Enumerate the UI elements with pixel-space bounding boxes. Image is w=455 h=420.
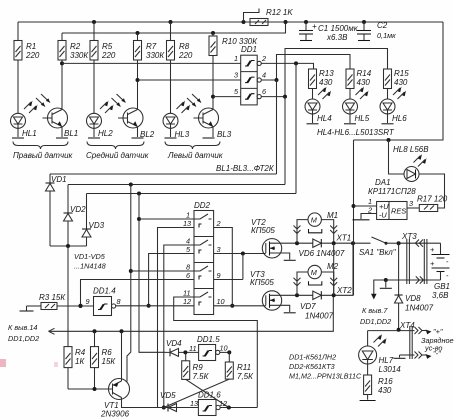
svg-text:DD1.4: DD1.4 bbox=[93, 287, 116, 296]
svg-text:КР1171СП28: КР1171СП28 bbox=[368, 187, 416, 196]
svg-text:220: 220 bbox=[25, 51, 40, 60]
svg-text:R8: R8 bbox=[179, 42, 190, 51]
wire M2 left lead bbox=[297, 272, 308, 295]
label VD1-VD5 type bbox=[74, 252, 107, 271]
ground HL3 bbox=[165, 137, 177, 139]
IC DD1 inverters 1-3 bbox=[234, 45, 267, 105]
wire M2 right lead bbox=[321, 272, 333, 295]
wire rail1 from out4 bbox=[50, 173, 277, 175]
svg-text:C1 1500мк: C1 1500мк bbox=[318, 24, 359, 33]
LED HL4 bbox=[305, 89, 332, 124]
HL8 emit arrows bbox=[414, 154, 427, 167]
resistor R5 220 bbox=[90, 20, 116, 60]
resistor R7 330K bbox=[134, 31, 166, 60]
wire XT4 lower bbox=[400, 349, 442, 359]
label K vyv14 bbox=[8, 323, 39, 343]
svg-text:XT4: XT4 bbox=[399, 321, 415, 330]
svg-text:КП505: КП505 bbox=[251, 226, 275, 235]
wire DD1 output6 to R15 bbox=[261, 49, 387, 99]
LED HL1 bbox=[11, 60, 37, 138]
wire to XT3 upper bbox=[397, 241, 441, 245]
HL1 emit arrows bbox=[24, 101, 38, 114]
ground HL2 bbox=[88, 137, 100, 139]
svg-text:M1,M2...PPN13LB11C: M1,M2...PPN13LB11C bbox=[289, 372, 362, 381]
wire pin8 input bbox=[131, 270, 194, 272]
wire DD1 input pin5 bbox=[213, 96, 241, 98]
svg-text:1: 1 bbox=[234, 54, 238, 63]
wire pin10 output to VT3 gate bbox=[214, 305, 266, 307]
svg-text:220: 220 bbox=[178, 51, 193, 60]
svg-text:15К: 15К bbox=[102, 357, 117, 366]
svg-text:VD4: VD4 bbox=[166, 339, 182, 348]
wire DA1 pin1 bbox=[354, 205, 377, 207]
svg-text:10: 10 bbox=[220, 344, 228, 353]
capacitor C2 0.1uk bbox=[357, 20, 396, 41]
wire rail3 branch to pin1 and VD4 bbox=[137, 194, 165, 353]
svg-text:4: 4 bbox=[262, 71, 266, 80]
svg-text:430: 430 bbox=[378, 386, 392, 395]
transistor VT1 2N3906 bbox=[100, 379, 130, 419]
svg-text:2: 2 bbox=[216, 219, 221, 228]
BL1 receive arrows bbox=[36, 94, 50, 107]
svg-text:R15: R15 bbox=[394, 69, 409, 78]
wire M1 right lead bbox=[321, 220, 333, 244]
connector XT4 bbox=[399, 321, 443, 359]
svg-text:BL3: BL3 bbox=[217, 130, 232, 139]
svg-text:HL7: HL7 bbox=[379, 356, 394, 365]
label charger bbox=[421, 336, 454, 353]
svg-text:R4: R4 bbox=[75, 348, 86, 357]
wire pin9 output bbox=[214, 279, 243, 281]
svg-text:3: 3 bbox=[217, 245, 221, 254]
svg-text:КП505: КП505 bbox=[250, 278, 274, 287]
label right sensor bbox=[13, 151, 74, 160]
BL2 receive arrows bbox=[112, 94, 126, 107]
ground HL1 bbox=[12, 137, 24, 139]
svg-text:VD1-VD5: VD1-VD5 bbox=[74, 252, 106, 261]
svg-text:HL5: HL5 bbox=[355, 114, 370, 123]
wire rail2 from out6 bbox=[68, 183, 285, 187]
ground VT2 bbox=[284, 259, 296, 261]
ground R3 bbox=[20, 306, 34, 311]
HL2 emit arrows bbox=[100, 101, 114, 114]
resistor R4 1K bbox=[64, 246, 86, 389]
svg-text:330К: 330К bbox=[70, 51, 89, 60]
IC DD1.4 bbox=[86, 287, 122, 316]
HL5 emit arrows bbox=[356, 87, 369, 100]
svg-text:M1: M1 bbox=[327, 211, 338, 220]
wire HL8 to R17 bbox=[419, 174, 445, 208]
wire diode cathode bus bbox=[50, 244, 87, 248]
svg-text:"+": "+" bbox=[433, 327, 443, 336]
svg-text:HL3: HL3 bbox=[175, 130, 190, 139]
svg-text:DA1: DA1 bbox=[375, 178, 391, 187]
connector XT3 bbox=[401, 232, 427, 284]
resistor R13 430 bbox=[309, 69, 335, 89]
wire XT1 to XT2 tie bbox=[333, 243, 335, 295]
resistor R17 120 bbox=[407, 195, 448, 212]
resistor R6 15K bbox=[91, 331, 117, 389]
svg-text:VD7: VD7 bbox=[300, 302, 316, 311]
transistor VT2 KP505 bbox=[251, 218, 290, 260]
ground HL6 bbox=[382, 123, 394, 125]
connector XT2 right chevrons bbox=[330, 278, 352, 295]
wire VT1 collector bbox=[122, 398, 199, 408]
svg-text:"-": "-" bbox=[433, 349, 441, 358]
svg-text:HL1: HL1 bbox=[22, 129, 37, 138]
svg-text:R13: R13 bbox=[319, 69, 334, 78]
wire base feed bbox=[68, 387, 113, 391]
svg-text:BL1-BL3...ФТ2К: BL1-BL3...ФТ2К bbox=[216, 164, 275, 173]
svg-text:-U: -U bbox=[379, 211, 387, 220]
svg-text:R1: R1 bbox=[26, 42, 36, 51]
HL3 emit arrows bbox=[177, 101, 191, 114]
LED HL2 bbox=[87, 60, 114, 138]
wire pin6 control bbox=[79, 280, 195, 308]
svg-text:Средний датчик: Средний датчик bbox=[86, 151, 150, 160]
svg-text:3: 3 bbox=[409, 199, 413, 208]
svg-text:К выв.14: К выв.14 bbox=[8, 323, 37, 332]
wire output4 branch down bbox=[276, 80, 278, 174]
scan artifact smudge bbox=[0, 359, 58, 367]
capacitor C1 1500uk bbox=[299, 20, 359, 42]
svg-text:3,6В: 3,6В bbox=[432, 291, 449, 300]
svg-text:M2: M2 bbox=[327, 262, 339, 271]
diode VD4 bbox=[165, 339, 199, 356]
HL7 emit arrows bbox=[374, 334, 387, 347]
wire DD1 output2 to R13 bbox=[261, 61, 313, 69]
wire output6 branch down bbox=[284, 97, 286, 185]
phototransistor BL1 bbox=[43, 60, 79, 138]
svg-text:VD1: VD1 bbox=[51, 175, 67, 184]
wire rail3 from out2 bbox=[87, 192, 297, 196]
svg-text:XT1: XT1 bbox=[336, 234, 352, 243]
ground HL5 bbox=[344, 123, 356, 125]
wire right-edge drop from bus bbox=[354, 22, 444, 140]
IC DD1.6 bbox=[190, 391, 227, 416]
label IC types bbox=[289, 353, 362, 381]
svg-text:220: 220 bbox=[101, 51, 116, 60]
wire pin13 control bbox=[158, 228, 195, 408]
svg-text:М: М bbox=[311, 268, 318, 277]
HL6 emit arrows bbox=[393, 87, 406, 100]
svg-text:К выв.7: К выв.7 bbox=[362, 306, 388, 315]
svg-text:9: 9 bbox=[217, 271, 221, 280]
motor M2 bbox=[308, 262, 339, 285]
resistor R1 220 bbox=[14, 22, 40, 60]
svg-text:М: М bbox=[311, 216, 318, 225]
wire DD1.5 output to R11 bbox=[220, 350, 232, 354]
svg-text:+: + bbox=[312, 22, 317, 31]
ground VT3 bbox=[284, 312, 296, 314]
svg-text:430: 430 bbox=[357, 78, 371, 87]
svg-text:DD1.5: DD1.5 bbox=[197, 335, 220, 344]
resistor R2 330K bbox=[58, 33, 89, 60]
ground BL2 bbox=[132, 137, 144, 139]
svg-text:Левый датчик: Левый датчик bbox=[167, 151, 224, 160]
label HL4-HL6 type bbox=[317, 128, 395, 137]
svg-text:R7: R7 bbox=[146, 42, 157, 51]
svg-text:7.5К: 7.5К bbox=[193, 372, 210, 381]
wire DD1 input pin3 bbox=[138, 79, 241, 81]
svg-text:HL8 L56В: HL8 L56В bbox=[393, 145, 429, 154]
IC DD2 switches bbox=[194, 201, 214, 315]
resistor R16 430 bbox=[364, 375, 394, 400]
svg-text:SA1 "Вкл": SA1 "Вкл" bbox=[359, 248, 397, 257]
resistor R8 220 bbox=[167, 20, 193, 60]
resistor R11 7.5K bbox=[225, 352, 254, 381]
ground DA1 bbox=[353, 219, 370, 221]
wire HL8 feed line bbox=[387, 138, 405, 174]
svg-text:R12 1K: R12 1K bbox=[266, 8, 293, 17]
wire DD1.4 output to pin12 bbox=[116, 305, 194, 307]
connector XT1 right chevrons bbox=[330, 226, 351, 243]
svg-text:2N3906: 2N3906 bbox=[100, 410, 130, 419]
LED HL6 bbox=[380, 89, 407, 124]
wire VT3 drain to M2 node bbox=[275, 293, 313, 297]
wire DD1.6 output bbox=[220, 406, 257, 410]
svg-text:VD3: VD3 bbox=[89, 221, 105, 230]
battery GB1 bbox=[430, 243, 450, 300]
svg-text:DD1,DD2: DD1,DD2 bbox=[8, 334, 39, 343]
LED HL5 bbox=[343, 89, 370, 124]
phototransistor BL3 bbox=[194, 56, 232, 140]
svg-text:R17 120: R17 120 bbox=[417, 195, 448, 204]
wire VDD line K vyv14 bbox=[49, 295, 334, 334]
svg-text:R14: R14 bbox=[357, 69, 372, 78]
IC DA1 KR1171SP28 bbox=[367, 178, 416, 220]
svg-text:х6.3В: х6.3В bbox=[326, 33, 348, 42]
wire DD1 output4 to R14 bbox=[261, 55, 350, 83]
diode VD1 bbox=[46, 174, 67, 246]
LED HL7 bbox=[359, 331, 402, 375]
BL3 receive arrows bbox=[187, 94, 201, 107]
DD2 switch glyph s1 bbox=[194, 214, 212, 228]
label BL1-BL3 type bbox=[216, 164, 275, 173]
wire pin5 control bbox=[147, 254, 194, 308]
ground HL4 bbox=[307, 123, 319, 125]
svg-text:3: 3 bbox=[234, 71, 238, 80]
transistor VT3 KP505 bbox=[250, 270, 290, 312]
wire battery sub-bus (330K rail) bbox=[62, 20, 288, 33]
svg-text:+: + bbox=[430, 245, 435, 254]
HL4 emit arrows bbox=[318, 87, 331, 100]
svg-text:R5: R5 bbox=[102, 42, 113, 51]
svg-text:10: 10 bbox=[217, 297, 225, 306]
svg-text:DD2: DD2 bbox=[194, 201, 211, 210]
wire R3 to DD1.4 input bbox=[57, 304, 94, 308]
DD2 switch glyph s4 bbox=[194, 292, 212, 306]
svg-text:VD2: VD2 bbox=[70, 205, 86, 214]
svg-text:7,5К: 7,5К bbox=[237, 372, 254, 381]
DD2 pin labels left bbox=[183, 211, 191, 307]
svg-text:11: 11 bbox=[189, 344, 197, 353]
svg-text:XT2: XT2 bbox=[336, 286, 352, 295]
diode VD2 bbox=[64, 185, 87, 247]
ground R16 bbox=[360, 400, 376, 402]
diode VD7 bbox=[300, 291, 334, 320]
ground BL3 bbox=[203, 137, 215, 139]
svg-text:L3014: L3014 bbox=[379, 365, 402, 374]
resistor R12 1K bbox=[242, 8, 294, 26]
svg-text:BL1: BL1 bbox=[64, 129, 78, 138]
brace left sensor bbox=[165, 142, 220, 150]
svg-text:RES: RES bbox=[391, 207, 406, 216]
svg-text:VD6 1N4007: VD6 1N4007 bbox=[299, 249, 345, 258]
svg-text:VD8: VD8 bbox=[405, 294, 421, 303]
connector XT2 left chevrons bbox=[294, 278, 301, 286]
wire DD1 input pin1 bbox=[62, 62, 241, 64]
wire pin2 to pin10 tie bbox=[214, 228, 235, 308]
svg-text:430: 430 bbox=[394, 78, 408, 87]
ground BL1 bbox=[56, 137, 68, 139]
DD2 pin labels right bbox=[216, 219, 225, 306]
label left sensor bbox=[167, 151, 224, 160]
svg-text:VD5: VD5 bbox=[160, 391, 176, 400]
DD2 switch glyph s2 bbox=[194, 240, 212, 254]
brace right sensor bbox=[13, 142, 68, 150]
wire pin3 to pin9 tie bbox=[242, 254, 244, 280]
svg-text:R2: R2 bbox=[70, 42, 81, 51]
wire R11 cross link bbox=[164, 379, 230, 407]
svg-text:HL4-HL6...L5013SRT: HL4-HL6...L5013SRT bbox=[317, 128, 395, 137]
LED HL3 bbox=[163, 60, 190, 139]
svg-text:1N4007: 1N4007 bbox=[305, 312, 334, 321]
wire top supply bus bbox=[18, 21, 443, 23]
svg-text:HL6: HL6 bbox=[392, 114, 407, 123]
motor M1 bbox=[308, 211, 338, 233]
wire VT1 emitter to VDD bbox=[121, 331, 123, 381]
brace middle sensor bbox=[87, 142, 144, 150]
svg-text:2: 2 bbox=[261, 54, 266, 63]
svg-text:13: 13 bbox=[183, 219, 191, 228]
svg-text:9: 9 bbox=[86, 297, 90, 306]
LED HL8 bbox=[393, 145, 429, 182]
svg-text:Правый датчик: Правый датчик bbox=[13, 151, 74, 160]
wire DA1 supply rail bbox=[352, 140, 356, 295]
wire R9 cross link bbox=[186, 379, 229, 407]
wire XT4 upper bbox=[368, 328, 415, 332]
ground XT4 bbox=[394, 355, 406, 358]
svg-text:+: + bbox=[430, 259, 435, 268]
svg-text:330К: 330К bbox=[146, 51, 165, 60]
diode VD6 bbox=[299, 239, 345, 258]
wire VT2 drain to M1 node bbox=[275, 241, 313, 245]
arrow K vyv7 bbox=[360, 294, 391, 326]
resistor R15 430 bbox=[384, 69, 410, 89]
wire pin3 output to VT2 gate bbox=[214, 252, 266, 256]
resistor R10 330K bbox=[209, 31, 258, 56]
svg-text:13: 13 bbox=[190, 399, 198, 408]
wire rail2 branch to pin8 and VT1 bbox=[127, 185, 133, 382]
wire output2 branch down bbox=[295, 63, 297, 193]
svg-text:1К: 1К bbox=[75, 357, 85, 366]
resistor R14 430 bbox=[346, 69, 372, 89]
diode VD3 bbox=[82, 194, 105, 247]
phototransistor BL2 bbox=[118, 60, 155, 139]
svg-text:HL4: HL4 bbox=[317, 114, 332, 123]
svg-text:12: 12 bbox=[183, 297, 191, 306]
diode VD5 bbox=[160, 391, 177, 412]
svg-text:R3 15К: R3 15К bbox=[39, 293, 66, 302]
connector XT1 left chevrons bbox=[294, 226, 301, 234]
svg-text:R9: R9 bbox=[193, 363, 204, 372]
svg-text:C2: C2 bbox=[377, 21, 388, 30]
wire pin4 input bbox=[162, 245, 194, 410]
wire M1 left lead bbox=[297, 220, 308, 244]
wire pin11 input from DD1.6 bbox=[174, 297, 258, 408]
wire pin1 input bbox=[139, 218, 194, 220]
diode VD8 bbox=[395, 243, 434, 330]
label middle sensor bbox=[86, 151, 150, 160]
resistor R3 15K bbox=[27, 293, 67, 310]
switch SA1 bbox=[359, 237, 399, 257]
resistor R9 7.5K bbox=[182, 352, 210, 381]
svg-text:430: 430 bbox=[319, 78, 333, 87]
IC DD1.5 bbox=[189, 335, 228, 361]
wire M2 node loop to SA1 bbox=[321, 243, 353, 297]
svg-text:R6: R6 bbox=[102, 348, 113, 357]
DD2 switch glyph s3 bbox=[194, 266, 212, 280]
svg-text:R16: R16 bbox=[378, 377, 393, 386]
svg-text:...1N4148: ...1N4148 bbox=[74, 262, 107, 271]
wire M1 node to SA1 bbox=[321, 241, 370, 245]
svg-text:GB1: GB1 bbox=[434, 282, 450, 291]
svg-text:DD1-К561ЛН2: DD1-К561ЛН2 bbox=[289, 353, 336, 362]
svg-text:HL2: HL2 bbox=[98, 129, 113, 138]
svg-text:DD1: DD1 bbox=[241, 45, 257, 54]
wire GND rail lower bbox=[374, 278, 441, 296]
ground GND rail bbox=[380, 280, 392, 288]
svg-text:DD2-К561КТ3: DD2-К561КТ3 bbox=[289, 362, 335, 371]
svg-text:DD1,DD2: DD1,DD2 bbox=[360, 317, 391, 326]
svg-text:0,1мк: 0,1мк bbox=[377, 31, 396, 40]
wire DA1 pin2 bbox=[361, 214, 377, 220]
svg-text:R11: R11 bbox=[237, 363, 251, 372]
svg-text:1N4007: 1N4007 bbox=[405, 304, 434, 313]
